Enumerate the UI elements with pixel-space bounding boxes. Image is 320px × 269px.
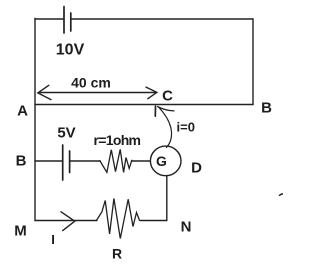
resistor R zigzag [96,199,139,239]
svg-text:10V: 10V [56,42,85,59]
svg-text:G: G [156,153,167,169]
wire top-right segment [71,18,253,20]
wire left vertical A-B-M rail [34,18,36,220]
wire 5V row left segment [35,160,62,162]
wire bottom R to N segment [141,220,167,222]
arrow 40cm right head [146,87,157,99]
svg-text:R: R [112,246,122,262]
svg-text:5V: 5V [57,125,75,142]
wire A-B horizontal [35,104,253,106]
svg-text:I: I [51,232,55,247]
svg-text:i=0: i=0 [177,120,195,135]
wire 5V row middle segment [70,160,100,162]
curved wire G to C with i=0 [159,107,172,148]
svg-text:C: C [162,88,173,105]
svg-text:B: B [261,100,272,117]
arrow I head on bottom wire [61,212,75,231]
wire right vertical [252,19,254,105]
battery V1 10V plates [64,7,71,34]
svg-text:N: N [181,219,192,236]
galvanometer U1 circle [150,146,181,176]
wire top-left segment [35,18,63,20]
wire G to N vertical [166,176,168,221]
arrow 40cm left head [38,85,51,99]
svg-text:40 cm: 40 cm [71,75,111,91]
resistor r=1ohm zigzag [100,149,132,172]
battery V2 5V plates [63,145,70,180]
svg-text:B: B [16,153,27,170]
arrow 40cm span line [39,92,156,94]
svg-text:r=1ohm: r=1ohm [94,132,142,148]
arrowhead i=0 at C [154,106,156,116]
svg-text:A: A [17,103,28,120]
svg-text:D: D [191,160,202,177]
wire bottom M-N left segment [35,220,97,222]
wire resistor to galvanometer [132,160,151,162]
stray mark right edge [280,194,284,195]
svg-text:M: M [14,223,27,240]
